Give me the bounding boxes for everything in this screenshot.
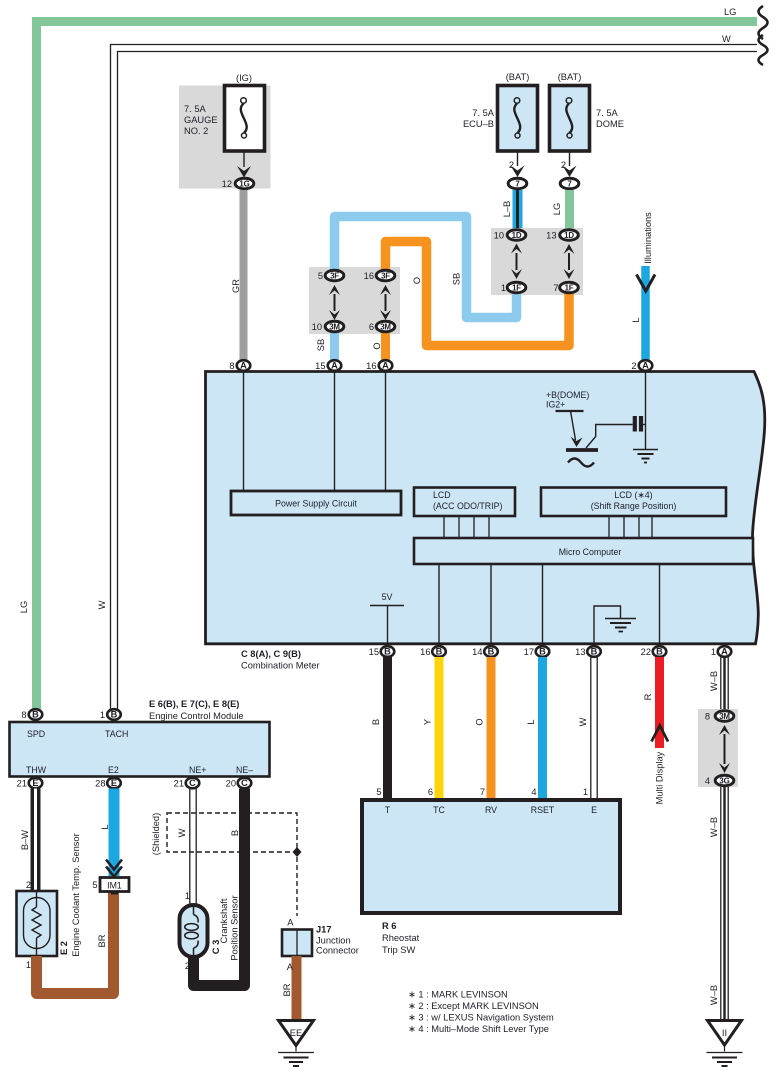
svg-text:GR: GR [231, 279, 241, 293]
arrow chevron down illumination [637, 275, 656, 292]
transistor collector lead to capacitor [586, 425, 633, 449]
junction arrows 3F to 3M left [329, 285, 340, 320]
svg-text:1: 1 [583, 787, 588, 797]
connector 1F pin 1 [507, 282, 526, 293]
svg-text:LG: LG [19, 601, 29, 613]
svg-text:17: 17 [524, 647, 534, 657]
svg-text:TACH: TACH [105, 729, 128, 739]
wire GR (gray) 1G to meter pin 8A [240, 190, 248, 360]
svg-text:C: C [241, 778, 248, 788]
svg-text:R: R [643, 693, 653, 700]
transistor base bar [566, 448, 598, 452]
transistor IG2+ rail [556, 410, 584, 412]
wire LG (battery feed, light green) [37, 6, 768, 709]
svg-text:A: A [721, 647, 728, 657]
fuse ECU-B body [498, 86, 538, 152]
connector 7 (DOME) [560, 178, 579, 189]
meter internal wire from 15A [334, 371, 336, 491]
svg-text:A: A [331, 361, 338, 371]
svg-text:NE+: NE+ [189, 765, 206, 775]
svg-text:W–B: W–B [709, 817, 719, 837]
svg-text:7. 5A: 7. 5A [472, 108, 495, 118]
ground II symbol [707, 1045, 743, 1066]
svg-text:Trip SW: Trip SW [382, 945, 415, 955]
svg-text:3M: 3M [329, 322, 340, 331]
svg-text:15: 15 [315, 361, 325, 371]
svg-text:3F: 3F [381, 271, 390, 280]
svg-text:LCD (∗4): LCD (∗4) [614, 490, 652, 500]
connector 1F pin 7 [560, 282, 579, 293]
svg-text:A: A [287, 962, 294, 972]
junction connector J17 [282, 930, 312, 957]
rheostat R6 box [362, 800, 620, 913]
svg-text:O: O [372, 342, 382, 349]
wire L (blue) 17B to R6 RSET [538, 657, 547, 800]
svg-text:B–W: B–W [20, 830, 30, 850]
wire B-W (black/white) THW to coolant sensor [31, 789, 41, 892]
svg-text:7. 5A: 7. 5A [596, 108, 619, 118]
shielded cable dashed box [167, 813, 297, 852]
svg-text:(IG): (IG) [236, 73, 252, 83]
svg-text:8: 8 [229, 361, 234, 371]
svg-text:5: 5 [376, 787, 381, 797]
ECM pin 21C [186, 778, 200, 789]
svg-text:W: W [97, 600, 107, 609]
connector 7 (ECU-B) [508, 178, 527, 189]
wire BR (brown) J17 to EE [292, 956, 302, 1020]
svg-text:4: 4 [531, 787, 536, 797]
svg-text:GAUGE: GAUGE [184, 115, 218, 125]
connector 3F pin 16 [376, 270, 395, 281]
svg-text:W: W [578, 717, 588, 726]
tear squiggle under transistor [568, 459, 594, 467]
svg-text:E 2: E 2 [59, 941, 69, 955]
svg-text:6: 6 [369, 322, 374, 332]
junction block 1D/1F gray box [491, 228, 583, 295]
svg-text:B: B [32, 710, 39, 720]
line MC to pin 14B [490, 564, 492, 646]
LCD (ACC ODO/TRIP) box [414, 488, 515, 517]
meter pin 2A [639, 360, 653, 371]
svg-text:IG2+: IG2+ [546, 400, 565, 410]
ECM pin 20C [238, 778, 252, 789]
svg-text:∗ 3 : w/ LEXUS Navigation Syst: ∗ 3 : w/ LEXUS Navigation System [408, 1013, 554, 1023]
wire B (black) NE- to crank sensor [194, 789, 245, 986]
connector 3G pin 4 [715, 775, 734, 786]
lines LCD2 to Micro Computer [609, 516, 652, 538]
junction arrows 1D to 1F left [511, 244, 522, 280]
ECM pin 1B [107, 709, 121, 720]
ground under capacitor [633, 450, 658, 463]
svg-text:14: 14 [472, 647, 482, 657]
svg-text:1D: 1D [564, 231, 574, 240]
svg-text:LCD: LCD [433, 490, 451, 500]
svg-text:2: 2 [185, 961, 190, 971]
wire L illumination [641, 266, 650, 360]
junction arrows 3F to 3M right [380, 285, 391, 320]
svg-text:8: 8 [705, 712, 710, 722]
meter pin 17B [536, 646, 550, 657]
svg-text:1: 1 [26, 960, 31, 970]
svg-text:2: 2 [26, 880, 31, 890]
svg-text:5: 5 [318, 271, 323, 281]
svg-text:BR: BR [97, 934, 107, 947]
svg-text:Illuminations: Illuminations [643, 212, 653, 264]
fuse DOME body [550, 86, 590, 152]
meter pin 1A [718, 646, 732, 657]
line MC to pin 16B [438, 564, 440, 646]
svg-text:16: 16 [366, 361, 376, 371]
svg-text:NO. 2: NO. 2 [184, 126, 208, 136]
svg-text:L: L [631, 317, 641, 322]
svg-text:T: T [385, 805, 391, 815]
svg-text:Junction: Junction [316, 936, 351, 946]
wire W-B 3G to ground II [721, 787, 728, 1020]
svg-text:10: 10 [494, 231, 504, 241]
wire ECU-B fuse to connector 7 [517, 150, 519, 166]
svg-text:1: 1 [100, 710, 105, 720]
svg-text:12: 12 [222, 179, 232, 189]
svg-text:1: 1 [711, 647, 716, 657]
arrow chevron up multi display [652, 726, 669, 742]
svg-text:B: B [436, 647, 443, 657]
svg-text:B: B [488, 647, 495, 657]
connector 3M pin 8 [715, 711, 734, 722]
svg-text:4: 4 [705, 776, 710, 786]
arrowhead DOME [563, 166, 577, 178]
svg-text:SB: SB [316, 339, 326, 351]
svg-text:15: 15 [369, 647, 379, 657]
svg-text:∗ 1 : MARK LEVINSON: ∗ 1 : MARK LEVINSON [408, 990, 508, 1000]
svg-text:B: B [591, 647, 598, 657]
wire L-B (blue/black) 7 to 1D [513, 190, 523, 230]
redraw SB/O through left gray box [335, 267, 386, 334]
svg-text:BR: BR [282, 983, 292, 996]
svg-text:1F: 1F [565, 283, 574, 292]
svg-text:(Shielded): (Shielded) [151, 813, 161, 855]
svg-text:W–B: W–B [709, 671, 719, 691]
svg-text:TC: TC [433, 805, 445, 815]
svg-text:O: O [475, 718, 485, 725]
connector 1D pin 13 [560, 230, 579, 241]
lines LCD1 to Micro Computer [444, 516, 489, 538]
svg-text:8: 8 [21, 710, 26, 720]
svg-text:B: B [384, 647, 391, 657]
meter pin 8A [237, 360, 251, 371]
svg-text:1G: 1G [239, 179, 249, 188]
svg-text:E: E [591, 805, 597, 815]
svg-text:3M: 3M [380, 322, 391, 331]
svg-text:7: 7 [553, 283, 558, 293]
svg-text:LG: LG [724, 7, 736, 17]
svg-text:Connector: Connector [316, 946, 359, 956]
connector 3M pin 6 [376, 321, 395, 332]
svg-text:B: B [656, 647, 663, 657]
engine coolant temp sensor E2 [17, 891, 58, 956]
meter pin 15A [328, 360, 342, 371]
svg-text:L: L [526, 719, 536, 724]
svg-text:R 6: R 6 [382, 921, 396, 931]
svg-text:DOME: DOME [596, 119, 624, 129]
ECM pin 8B [29, 709, 43, 720]
svg-text:13: 13 [575, 647, 585, 657]
svg-text:1F: 1F [512, 283, 521, 292]
svg-text:A: A [382, 361, 389, 371]
svg-text:Engine Control Module: Engine Control Module [149, 711, 244, 721]
ECM pin 21E [29, 778, 43, 789]
svg-text:3G: 3G [719, 776, 729, 785]
svg-text:16: 16 [364, 271, 374, 281]
wire BR (brown) coolant sensor to IM1 [37, 892, 114, 994]
svg-text:7. 5A: 7. 5A [184, 104, 207, 114]
fuse GAUGE NO.2 gray block [179, 86, 271, 189]
svg-text:∗ 2 : Except MARK LEVINSON: ∗ 2 : Except MARK LEVINSON [408, 1001, 539, 1011]
meter pin 14B [484, 646, 498, 657]
svg-text:A: A [642, 361, 649, 371]
svg-text:Y: Y [423, 719, 433, 725]
wire Y (yellow) 16B to R6 TC [435, 657, 444, 800]
connector 1G [235, 178, 254, 189]
svg-text:21: 21 [17, 779, 27, 789]
double chevron into IM1 [106, 860, 122, 877]
svg-text:Position Sensor: Position Sensor [230, 895, 240, 960]
wire B (black) 15B to R6 T [383, 657, 392, 800]
svg-text:∗ 4 : Multi–Mode Shift Lever T: ∗ 4 : Multi–Mode Shift Lever Type [408, 1024, 549, 1034]
svg-text:A: A [287, 918, 294, 928]
svg-text:EE: EE [290, 1028, 302, 1038]
wire W (white double) NE+ to crank sensor [190, 789, 196, 906]
capacitor plates [633, 416, 637, 432]
svg-text:THW: THW [26, 765, 47, 775]
svg-text:+B(DOME): +B(DOME) [546, 390, 589, 400]
Micro Computer box [414, 538, 753, 564]
wire R (red) 22B to multi display [655, 657, 664, 748]
svg-text:2: 2 [631, 361, 636, 371]
LCD (*4) Shift Range Position box [541, 488, 726, 517]
svg-text:O: O [412, 277, 422, 284]
junction block 3F/3M gray box [309, 267, 400, 334]
svg-text:Power Supply Circuit: Power Supply Circuit [275, 499, 357, 509]
svg-text:IM1: IM1 [107, 880, 122, 890]
shield junction diamond [293, 847, 302, 857]
svg-text:1: 1 [501, 283, 506, 293]
arrowhead into 1G [237, 166, 251, 178]
wire O (orange) 1F to meter 16A [386, 242, 570, 368]
wire fuse to 1G [243, 150, 245, 167]
svg-text:W–B: W–B [709, 985, 719, 1005]
internal ground near 13B [594, 606, 636, 646]
svg-text:J17: J17 [316, 925, 332, 935]
wire W (white double line) 13B to R6 E [591, 657, 597, 800]
svg-text:Micro Computer: Micro Computer [559, 547, 622, 557]
wire LG 7 to 1D [565, 190, 574, 230]
svg-text:A: A [240, 361, 247, 371]
ground point EE triangle [279, 1021, 314, 1046]
shield dashed line to J17 [296, 857, 298, 916]
svg-text:E2: E2 [108, 765, 119, 775]
svg-text:W: W [722, 34, 731, 44]
svg-text:21: 21 [174, 779, 184, 789]
combination meter box [206, 372, 765, 644]
svg-text:5V: 5V [382, 592, 393, 602]
ground EE symbol [278, 1046, 314, 1067]
wire W-B meter 1A to 3M [721, 657, 728, 712]
meter pin 16A [379, 360, 393, 371]
meter pin 13B [587, 646, 601, 657]
svg-text:6: 6 [428, 787, 433, 797]
wire W (white wire drawn as double line) [111, 35, 768, 709]
svg-text:B: B [539, 647, 546, 657]
svg-text:(ACC ODO/TRIP): (ACC ODO/TRIP) [433, 501, 502, 511]
svg-text:7: 7 [480, 787, 485, 797]
svg-text:22: 22 [641, 647, 651, 657]
svg-text:3M: 3M [719, 712, 730, 721]
line MC to pin 17B [542, 564, 544, 646]
svg-text:28: 28 [95, 779, 105, 789]
crankshaft position sensor C3 [180, 905, 208, 957]
svg-text:(BAT): (BAT) [506, 72, 530, 82]
svg-text:13: 13 [546, 231, 556, 241]
svg-text:E: E [32, 778, 38, 788]
svg-text:RV: RV [485, 805, 497, 815]
svg-text:II: II [722, 1028, 727, 1038]
5V supply symbol [370, 592, 404, 646]
svg-text:1: 1 [185, 891, 190, 901]
connector 3M pin 10 [325, 321, 344, 332]
Power Supply Circuit box [231, 491, 401, 515]
svg-text:L–B: L–B [502, 201, 512, 218]
svg-text:E 6(B), E 7(C), E 8(E): E 6(B), E 7(C), E 8(E) [149, 699, 239, 709]
svg-text:10: 10 [312, 322, 322, 332]
wire DOME fuse to connector 7 [569, 150, 571, 166]
arrowhead ECU-B [511, 166, 525, 178]
wire L (blue) E2 pin to IM1 [109, 789, 120, 877]
junction arrows 1D to 1F right [564, 244, 575, 279]
svg-text:Multi Display: Multi Display [655, 751, 665, 804]
svg-text:3F: 3F [330, 271, 339, 280]
ECM pin 28E [107, 778, 121, 789]
meter internal wire from 2A to capacitor ground [645, 371, 647, 450]
engine control module box [10, 722, 270, 777]
connector 1D pin 10 [507, 230, 526, 241]
svg-text:Combination Meter: Combination Meter [241, 661, 320, 671]
svg-text:(Shift Range Position): (Shift Range Position) [591, 501, 677, 511]
svg-text:20: 20 [226, 779, 236, 789]
junction block 3M/3G gray box [698, 709, 738, 787]
svg-text:Crankshaft: Crankshaft [219, 898, 229, 943]
svg-text:RSET: RSET [531, 805, 555, 815]
svg-text:B: B [371, 719, 381, 725]
ground point II triangle [708, 1021, 742, 1046]
meter pin 15B [381, 646, 395, 657]
svg-text:1D: 1D [512, 231, 522, 240]
svg-text:W: W [177, 828, 187, 837]
svg-text:Engine Coolant Temp. Sensor: Engine Coolant Temp. Sensor [71, 833, 81, 956]
svg-text:Rheostat: Rheostat [382, 933, 420, 943]
svg-text:B: B [230, 830, 240, 836]
junction arrows 3M to 3G [719, 725, 730, 773]
svg-text:B: B [111, 710, 118, 720]
svg-text:5: 5 [92, 880, 97, 890]
svg-text:L: L [100, 824, 110, 829]
line MC to pin 22B [659, 564, 661, 646]
svg-text:SB: SB [452, 273, 462, 285]
svg-text:SPD: SPD [27, 729, 45, 739]
wire O (orange) 14B to R6 RV [487, 657, 496, 800]
wire SB (sky blue) 1F to meter 15A [335, 217, 517, 368]
svg-text:16: 16 [420, 647, 430, 657]
junction connector IM1 [100, 878, 129, 895]
svg-text:C 8(A), C 9(B): C 8(A), C 9(B) [241, 649, 301, 659]
fuse GAUGE NO.2 body [225, 86, 265, 152]
svg-text:NE–: NE– [236, 765, 253, 775]
svg-text:LG: LG [552, 203, 562, 215]
meter internal wire from 16A [385, 371, 387, 491]
svg-text:E: E [111, 778, 117, 788]
connector 3F pin 5 [325, 270, 344, 281]
meter pin 16B [432, 646, 446, 657]
svg-text:C: C [189, 778, 196, 788]
meter internal wire from 8A [243, 371, 245, 491]
meter pin 22B [653, 646, 667, 657]
svg-text:(BAT): (BAT) [558, 72, 582, 82]
transistor base lead with arrow [571, 411, 576, 440]
svg-text:ECU–B: ECU–B [463, 119, 494, 129]
